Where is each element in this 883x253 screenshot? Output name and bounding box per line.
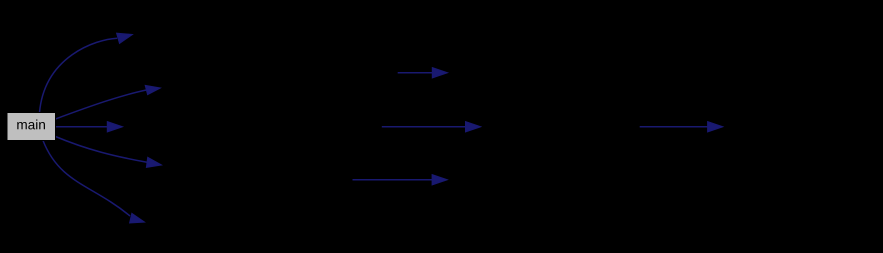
wire: middle arrow 2 [382,126,466,128]
wire: edge main->node3 (second curve) [56,90,147,119]
arrowhead edge2 [145,85,160,94]
wire: right arrow [640,126,708,128]
wire: edge main->node4 (horizontal) [56,126,108,128]
arrowhead edge5 [130,213,145,223]
wire: middle arrow 3 [353,179,433,181]
arrowhead right [708,122,723,132]
arrowhead mid1 [432,68,447,78]
arrowhead edge3 [107,122,122,132]
arrowhead mid3 [432,175,447,185]
arrowhead edge4 [146,157,161,167]
arrowhead edge1 [117,33,133,43]
wire: edge main->node2 (top curve) [40,38,118,112]
node main [7,113,56,141]
wire: edge main->node6 (bottom curve) [43,141,130,217]
wire: middle arrow 1 [398,72,433,74]
arrowhead mid2 [466,122,481,132]
wire: edge main->node5 (fourth curve) [56,137,148,163]
